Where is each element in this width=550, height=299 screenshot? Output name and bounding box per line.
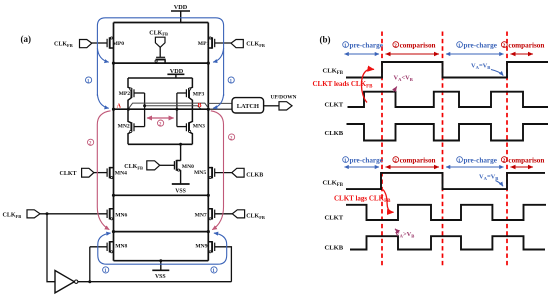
svg-text:CLKB: CLKB bbox=[325, 245, 344, 252]
svg-text:CLKT: CLKT bbox=[325, 102, 344, 109]
annotation CLKT leads CLKFB bbox=[313, 80, 374, 89]
svg-text:comparison: comparison bbox=[508, 156, 544, 164]
input port CLKB bbox=[232, 168, 263, 178]
wire CLKFB to MP1 gate bbox=[215, 42, 231, 44]
svg-text:VDD: VDD bbox=[174, 4, 188, 11]
svg-text:2: 2 bbox=[159, 121, 162, 127]
node B label bbox=[198, 103, 202, 109]
transistor MN3 bbox=[177, 109, 205, 144]
svg-text:MP1: MP1 bbox=[198, 41, 210, 47]
header row 1 arrows bbox=[345, 53, 534, 55]
annotation VA=VB group1 bbox=[471, 63, 503, 76]
wire pentagon to MN0 gate bbox=[160, 164, 175, 166]
wire pentagon to equalizer gate bbox=[159, 47, 161, 57]
svg-text:MN8: MN8 bbox=[115, 244, 127, 250]
wire right main column bbox=[207, 23, 209, 261]
svg-text:1: 1 bbox=[458, 43, 461, 49]
wire MN8 gate branch bbox=[89, 247, 91, 282]
svg-text:pre-charge: pre-charge bbox=[464, 156, 497, 164]
label (a) bbox=[21, 34, 32, 44]
svg-text:2: 2 bbox=[394, 158, 397, 164]
waveform group2 CLKFB label bbox=[323, 180, 344, 188]
input port CLKT bbox=[60, 168, 94, 177]
VDD top symbol bbox=[171, 4, 190, 23]
svg-text:comparison: comparison bbox=[508, 41, 544, 49]
transistor MN4 bbox=[107, 167, 127, 179]
svg-text:CLKT: CLKT bbox=[325, 215, 344, 222]
svg-text:MN4: MN4 bbox=[115, 171, 127, 177]
wire cross line L1 node A bbox=[128, 103, 208, 109]
svg-text:1: 1 bbox=[344, 43, 347, 49]
wire CLKB to MN5 gate bbox=[215, 172, 232, 174]
svg-text:2: 2 bbox=[503, 43, 506, 49]
waveform group2 CLKB bbox=[350, 236, 545, 249]
wire MN9 gate feedback bbox=[215, 247, 232, 282]
pink comparison bracket right bbox=[211, 111, 224, 230]
svg-text:pre-charge: pre-charge bbox=[464, 41, 497, 49]
svg-text:CLKFB: CLKFB bbox=[3, 213, 22, 219]
annotation VA<VB group1 bbox=[394, 75, 413, 92]
waveform group2 CLKB label bbox=[325, 245, 344, 252]
transistor equalizer MPE bbox=[155, 57, 166, 63]
transistor MP3 bbox=[177, 78, 205, 109]
svg-text:MP0: MP0 bbox=[113, 41, 125, 47]
waveform group1 CLKFB bbox=[346, 62, 548, 78]
inverter bbox=[55, 271, 78, 293]
wire LATCH to output bbox=[264, 105, 279, 107]
wire cross line L2 node B bbox=[145, 106, 201, 109]
input port CLKFB bottom-left bbox=[3, 210, 41, 219]
wire rail5 bottom bbox=[114, 260, 209, 262]
wire node row A-B bbox=[114, 108, 209, 110]
wire node row to LATCH lower bbox=[208, 108, 232, 110]
wire CLKFB to MP0 gate bbox=[92, 42, 107, 44]
svg-text:CLKFB: CLKFB bbox=[149, 30, 168, 36]
svg-text:MN5: MN5 bbox=[194, 170, 206, 176]
waveform group1 CLKT bbox=[348, 92, 549, 107]
transistor MN9 bbox=[195, 241, 214, 253]
wire CLKT to MN4 gate bbox=[94, 172, 107, 174]
wire rail2 bbox=[114, 62, 209, 64]
svg-text:VSS: VSS bbox=[175, 189, 186, 195]
waveform group2 CLKT bbox=[346, 205, 546, 220]
blue circled 1 top-left bbox=[86, 77, 92, 84]
waveform group1 CLKB label bbox=[325, 130, 344, 137]
svg-text:pre-charge: pre-charge bbox=[350, 156, 383, 164]
svg-text:MN0: MN0 bbox=[182, 164, 194, 170]
dashed phase line 3 bbox=[506, 32, 508, 267]
svg-text:1: 1 bbox=[230, 78, 233, 84]
transistor MN6 bbox=[107, 208, 127, 220]
wire rail to MN0 bbox=[180, 144, 182, 160]
svg-text:2: 2 bbox=[503, 158, 506, 164]
header row 2 arrows bbox=[345, 166, 534, 168]
svg-text:MN2: MN2 bbox=[118, 124, 130, 130]
header row 2 : pre-charge / comparison labels bbox=[343, 156, 545, 164]
annotation CLKT lags CLKFB bbox=[334, 195, 391, 204]
svg-text:1: 1 bbox=[212, 268, 215, 274]
input port CLKFB middle-top bbox=[149, 30, 168, 47]
svg-text:2: 2 bbox=[89, 141, 92, 147]
input port CLKFB top-left bbox=[54, 40, 92, 49]
ground VSS under MN0 bbox=[172, 170, 190, 195]
red arc arrow group2 bbox=[383, 190, 394, 213]
svg-text:B: B bbox=[198, 103, 202, 109]
node A label bbox=[117, 104, 122, 110]
wire inverter output feedback bbox=[78, 281, 232, 283]
VDD inner symbol bbox=[167, 68, 184, 78]
waveform group1 CLKFB label bbox=[323, 68, 344, 76]
svg-text:CLKFB: CLKFB bbox=[124, 164, 143, 170]
svg-text:UP/DOWN: UP/DOWN bbox=[271, 95, 297, 101]
wire inner top rail bbox=[128, 77, 192, 79]
svg-text:CLKFB: CLKFB bbox=[54, 42, 73, 48]
transistor MN2 bbox=[118, 109, 145, 144]
svg-text:CLKFB: CLKFB bbox=[246, 42, 265, 48]
waveform group1 CLKT label bbox=[325, 102, 344, 109]
waveform group2 CLKFB bbox=[346, 173, 545, 189]
waveform group1 CLKB bbox=[347, 124, 549, 141]
svg-text:CLKFB: CLKFB bbox=[246, 214, 265, 220]
input port CLKFB top-right bbox=[231, 40, 265, 49]
svg-text:MN7: MN7 bbox=[195, 213, 207, 219]
blue circled 1 bottom-right bbox=[211, 267, 217, 274]
blue circled 1 bottom-left bbox=[103, 267, 109, 274]
dashed phase line 2 bbox=[442, 32, 444, 267]
wire cross gate vertical right bbox=[176, 93, 178, 127]
wire left main column bbox=[113, 23, 115, 261]
wire rail3 bbox=[114, 194, 209, 196]
input port CLKFB right-mid bbox=[232, 210, 265, 220]
svg-text:LATCH: LATCH bbox=[237, 103, 259, 110]
wire cross gate vertical left bbox=[144, 93, 146, 127]
wire CLKFB branch down to inverter bbox=[47, 214, 55, 282]
svg-text:CLKT leads CLKFB: CLKT leads CLKFB bbox=[313, 80, 374, 89]
svg-text:1: 1 bbox=[104, 268, 107, 274]
svg-text:comparison: comparison bbox=[400, 41, 436, 49]
svg-text:(a): (a) bbox=[21, 34, 32, 44]
svg-text:2: 2 bbox=[230, 135, 233, 141]
transistor MN0 bbox=[174, 160, 194, 171]
transistor MN7 bbox=[195, 208, 215, 220]
red arc arrow group1 bbox=[361, 69, 374, 102]
svg-text:1: 1 bbox=[87, 78, 90, 84]
wire node B to LATCH upper bbox=[208, 102, 232, 104]
label (b) bbox=[320, 35, 331, 45]
pink circled 2 right bbox=[229, 134, 235, 141]
dashed phase line 1 bbox=[381, 32, 383, 267]
LATCH block bbox=[232, 98, 264, 113]
annotation VA>VB group2 bbox=[395, 229, 414, 239]
wire MN8 gate bbox=[90, 246, 107, 248]
header row 1 : pre-charge / comparison labels bbox=[343, 41, 545, 49]
svg-text:2: 2 bbox=[394, 43, 397, 49]
wire CLKFB to MN6 gate bbox=[40, 213, 107, 215]
transistor MP2 bbox=[119, 78, 145, 109]
svg-text:MP2: MP2 bbox=[119, 91, 131, 97]
wire inner bottom rail bbox=[128, 143, 192, 145]
svg-text:MN3: MN3 bbox=[193, 124, 205, 130]
svg-text:CLKT: CLKT bbox=[60, 171, 77, 177]
blue precharge bracket top bbox=[97, 18, 223, 109]
svg-text:1: 1 bbox=[458, 158, 461, 164]
junction dots bbox=[46, 62, 210, 284]
blue circled 1 top-right bbox=[228, 77, 234, 84]
transistor MN5 bbox=[194, 167, 215, 179]
svg-text:MP3: MP3 bbox=[193, 92, 205, 98]
svg-text:(b): (b) bbox=[320, 35, 331, 45]
wire rail4 bbox=[114, 231, 209, 233]
wire top rail bbox=[114, 22, 209, 24]
svg-text:VSS: VSS bbox=[155, 274, 166, 280]
pink arrow offset2 bbox=[147, 118, 174, 127]
annotation VA=VB group2 bbox=[479, 174, 503, 187]
transistor MP0 bbox=[107, 37, 124, 49]
svg-text:MN9: MN9 bbox=[195, 244, 207, 250]
output port UP/DOWN bbox=[271, 95, 297, 110]
svg-text:CLKT lags CLKFB: CLKT lags CLKFB bbox=[334, 195, 391, 204]
svg-text:pre-charge: pre-charge bbox=[350, 41, 383, 49]
pink circled 2 left bbox=[88, 139, 94, 146]
svg-text:MN6: MN6 bbox=[115, 213, 127, 219]
svg-text:CLKB: CLKB bbox=[246, 173, 263, 179]
blue evaluate bracket bottom bbox=[98, 233, 227, 264]
svg-text:CLKB: CLKB bbox=[325, 130, 344, 137]
svg-text:comparison: comparison bbox=[400, 156, 436, 164]
input port CLKFB for MN0 bbox=[124, 161, 159, 171]
svg-text:1: 1 bbox=[344, 158, 347, 164]
pink comparison bracket left bbox=[97, 111, 110, 230]
ground VSS bottom bbox=[152, 261, 169, 281]
wire CLKFB to MN7 gate bbox=[215, 213, 233, 215]
transistor MN8 bbox=[107, 241, 127, 253]
transistor MP1 bbox=[198, 37, 215, 49]
waveform group2 CLKT label bbox=[325, 215, 344, 222]
